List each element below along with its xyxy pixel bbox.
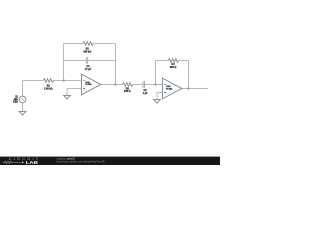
svg-text:TL081: TL081: [166, 88, 173, 90]
svg-text:100 Ω: 100 Ω: [124, 90, 131, 93]
svg-text:1.00 kΩ: 1.00 kΩ: [44, 87, 53, 90]
svg-text:100 Ω: 100 Ω: [170, 66, 177, 69]
svg-text:1 kHz: 1 kHz: [13, 100, 18, 103]
svg-text:1 µF: 1 µF: [143, 92, 148, 95]
svg-text:LAB: LAB: [26, 160, 38, 165]
svg-text:100 kΩ: 100 kΩ: [83, 50, 91, 53]
svg-text:TL081: TL081: [85, 84, 92, 86]
svg-text:47 µF: 47 µF: [85, 68, 92, 71]
svg-text:http://circuitlab.com/c9qvb4yr: http://circuitlab.com/c9qvb4yr7zv45: [57, 160, 106, 164]
